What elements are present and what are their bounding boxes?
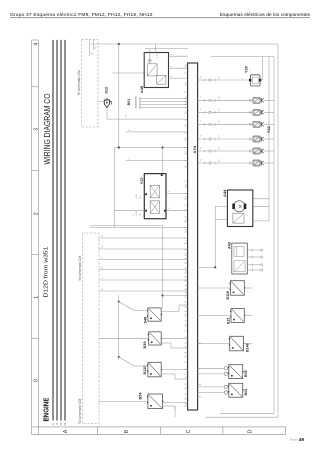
B05 connector circles — [224, 367, 227, 395]
svg-text:D12D from w351: D12D from w351 — [44, 246, 50, 297]
frame: zone numbers 4..0 — [33, 43, 39, 382]
svg-text:3: 3 — [33, 128, 39, 131]
wire S48 riser — [178, 305, 180, 312]
node J5 — [214, 266, 216, 268]
unit A44 (motor actuator) — [227, 190, 252, 227]
wire Y37 right pin 2 to A74 — [166, 210, 188, 212]
wire A45 right pin 2 to A74 — [169, 67, 189, 69]
svg-text:B01: B01 — [127, 99, 131, 106]
wire to S48 left pin — [134, 310, 148, 312]
wire B119 right pin2 — [161, 373, 175, 375]
wire CM stub 2 to A74 — [99, 248, 188, 250]
svg-text:A: A — [63, 429, 69, 433]
wire right vertical trunk 2 — [273, 57, 275, 414]
svg-text:2: 2 — [33, 212, 39, 215]
sensor B39 — [148, 332, 162, 345]
wire A74 to valve y100 — [198, 99, 253, 101]
wire B39 right pin to A74 — [161, 337, 187, 339]
sensor B118 — [230, 281, 246, 296]
svg-text:1: 1 — [33, 296, 39, 299]
frame: bottom ruler row — [32, 427, 286, 435]
svg-text:B05: B05 — [244, 370, 248, 377]
dashed box to-schematic CM (lower) — [83, 233, 100, 424]
node J3 trunk2 — [118, 146, 120, 148]
sensor B04 — [228, 383, 244, 397]
wire A45 top pin 1 — [149, 49, 151, 53]
wire CM to B54 left pin — [99, 401, 148, 403]
wire B119 riser2 — [174, 374, 176, 379]
wire A74 to B05 a — [198, 367, 225, 369]
A74 left pin labels — [185, 62, 187, 405]
wire valve Y33-4 to bus — [264, 138, 274, 140]
sensor B119 — [147, 362, 162, 377]
wire B54 riser to bottom return — [174, 406, 176, 417]
wire top trunk 1 — [90, 43, 278, 45]
valve Y33-2 — [253, 109, 264, 115]
svg-text:A45: A45 — [139, 85, 144, 93]
svg-text:B118: B118 — [226, 291, 230, 299]
wire A44 left pin 1 — [215, 205, 227, 207]
wire S48 right pin — [161, 311, 179, 313]
frame: left ruler column — [32, 40, 39, 434]
A74 right lower pin stubs — [198, 344, 201, 397]
connector comb symbol at bus end — [44, 416, 48, 420]
valve Y39 — [249, 75, 261, 86]
wire Y37 left pin to vertical B — [115, 210, 145, 212]
wire CM stub 1 to A74 — [99, 237, 188, 239]
wire A74 to B05 b — [198, 373, 225, 375]
svg-text:Pagina: Pagina — [290, 439, 298, 442]
svg-text:A43: A43 — [227, 242, 231, 249]
wire J4 down to S48 — [162, 296, 164, 308]
wire A44 right pin 3 — [253, 220, 269, 222]
wire vertical x118 lower — [118, 295, 120, 360]
svg-text:1 2 3: 1 2 3 — [157, 52, 159, 58]
wire A43 right pin 2 — [247, 256, 261, 258]
sensor B21 — [230, 309, 245, 323]
wire A74 to B148 — [198, 343, 230, 345]
wire valve Y33-3 to bus — [264, 123, 274, 125]
wire CM to B39 left pin — [99, 337, 149, 339]
connector X12 — [98, 98, 111, 108]
wire Y39 right stub — [260, 79, 263, 81]
wire B54 right pin to A74 — [163, 402, 188, 404]
wire J5 to A74 — [198, 266, 216, 268]
valve Y33-3 — [253, 121, 264, 127]
wire A74 to B21 — [198, 315, 231, 317]
wire A43 right pin 4 — [247, 269, 261, 271]
control unit A45 — [144, 52, 168, 87]
svg-text:S48: S48 — [143, 317, 147, 324]
wire A74 to valve y139 — [198, 138, 253, 140]
wire S48 riser to A74 — [179, 304, 188, 306]
node J1 on top trunk — [118, 43, 120, 45]
wire Y37 right pin 1 to A74 — [166, 193, 188, 195]
wire upper right horizontal — [211, 56, 274, 58]
wire A74 to valve y151 — [198, 150, 253, 152]
wire B54 riser2 — [174, 406, 176, 410]
wire to A74 — [171, 347, 188, 349]
frame: zone letters A..D — [63, 429, 254, 433]
sensor B05 — [228, 365, 244, 379]
wire X12 to A74 — [107, 118, 188, 120]
bus terminal labels — [52, 422, 67, 425]
wire CM stub 6 to A74 — [99, 290, 188, 292]
svg-text:A44: A44 — [222, 189, 227, 197]
wire valve Y33-5 to bus — [264, 150, 274, 152]
wire left vertical B — [114, 148, 116, 228]
node J6 — [118, 300, 120, 302]
valve Y33-1 — [253, 97, 264, 103]
wire to A74 — [175, 378, 188, 380]
wire A74 to valve y124 — [198, 123, 253, 125]
wire A43 right pin 1 — [247, 249, 261, 251]
svg-text:To schematic CM: To schematic CM — [78, 398, 82, 424]
wire B21 right stub — [244, 315, 252, 317]
wire B39 right pin2 — [161, 342, 171, 344]
sensor B148 — [229, 336, 245, 351]
A74 right pin labels, splice circles and ticks — [201, 75, 252, 164]
wire A74 to B118 — [198, 287, 231, 289]
wire A43 right pin 3 — [247, 264, 261, 266]
node J7 — [118, 356, 120, 358]
svg-text:WIRING DIAGRAM CO: WIRING DIAGRAM CO — [43, 94, 52, 165]
svg-text:0: 0 — [33, 379, 39, 382]
svg-text:ENGINE: ENGINE — [42, 397, 51, 421]
wire left vertical A — [118, 44, 120, 148]
svg-text:Esquemas eléctricos de los com: Esquemas eléctricos de los componentes — [220, 12, 311, 18]
wire X12 drop — [106, 108, 108, 120]
valve Y33-6 — [253, 160, 264, 166]
svg-text:B148: B148 — [246, 343, 250, 352]
wire A45 right pin 3 to A74 — [169, 77, 189, 79]
wire A74 to B04 a — [198, 386, 225, 388]
valve Y33-4 — [253, 136, 264, 142]
wire stub 2 inside dashed box — [93, 40, 95, 50]
wire down to Y37 pin 1 — [162, 148, 164, 174]
B01 wire number stacks — [135, 95, 189, 109]
svg-text:D: D — [248, 429, 254, 433]
sensor B54 — [147, 394, 163, 409]
svg-text:B119: B119 — [143, 366, 147, 375]
wire B54 right pin2 — [163, 405, 176, 407]
unit A43 — [232, 243, 248, 274]
wire valve Y33-2 to bus — [264, 111, 274, 113]
wire A45 top pin 2 — [155, 44, 157, 53]
wire CM stub 5 to A74 — [99, 279, 188, 281]
svg-text:B: B — [124, 429, 130, 433]
node J4 — [161, 294, 163, 296]
wire trunk 3b — [90, 227, 188, 229]
wire A44 right pin 2 — [253, 205, 269, 207]
wire trunk 2 to A74 — [115, 147, 188, 149]
wire trunk 3a — [90, 225, 163, 227]
wire A74 to B04 b — [198, 392, 225, 394]
svg-text:To schematic CM: To schematic CM — [77, 70, 81, 96]
svg-text:C: C — [186, 429, 192, 433]
wire to A45 left pin — [112, 72, 144, 74]
wire B148 right stub — [243, 343, 252, 345]
ECU connector bar A74 — [188, 63, 198, 410]
wire A45 right pin 1 to A74 — [169, 55, 189, 57]
wire vertical to J4 — [162, 226, 164, 296]
svg-text:L60A: L60A — [135, 211, 138, 216]
svg-text:B54: B54 — [139, 392, 143, 400]
svg-text:M: M — [237, 205, 242, 208]
svg-text:To schematic CM: To schematic CM — [78, 255, 82, 281]
svg-text:A74: A74 — [192, 145, 197, 153]
wire B119 right pin to A74 — [161, 369, 187, 371]
wire top trunk 2 — [145, 48, 188, 50]
wire mid to A74 y160 — [126, 160, 188, 162]
wire CM stub 4 to A74 — [99, 269, 188, 271]
wire number labels left of Y37 — [133, 194, 142, 216]
wire stub inside dashed box — [89, 40, 91, 56]
wire A74 to valve y163 — [198, 162, 253, 164]
A74 left pin stubs — [184, 66, 187, 406]
wire Y39 up to horizontal — [262, 57, 264, 81]
wire CM stub 3 to A74 — [99, 259, 188, 261]
wire bottom right return 1 — [220, 412, 274, 414]
wire valve Y33-6 to bus — [264, 162, 274, 164]
wire A44 right pin 1 — [253, 198, 269, 200]
valve Y33-5 — [253, 148, 264, 154]
wire A74 to Y39 — [198, 79, 251, 81]
svg-text:L60B: L60B — [136, 194, 138, 199]
svg-text:Grupo 37 Esquema eléctrico FM9: Grupo 37 Esquema eléctrico FM9, FM12, FH… — [10, 12, 153, 18]
svg-text:Y37: Y37 — [139, 176, 144, 184]
power bus feed lines — [53, 40, 65, 421]
wire B39 riser2 — [170, 343, 172, 348]
svg-text:B04: B04 — [244, 389, 248, 396]
svg-text:4: 4 — [33, 43, 39, 46]
wire A74 to valve y112 — [198, 111, 253, 113]
wire vertical at x215 — [214, 206, 216, 267]
wire right vertical trunk 1 — [277, 44, 279, 417]
wire J4 to A74 — [163, 295, 189, 297]
svg-text:Y33: Y33 — [267, 126, 271, 133]
sensor S48 — [147, 308, 162, 321]
wire A44 left pin 2 — [215, 219, 227, 221]
wire mid to A74 y132 — [126, 131, 188, 133]
svg-text:49: 49 — [299, 437, 305, 443]
node J2 trunk2 — [161, 146, 163, 148]
wire J6 diagonal to S48 — [119, 302, 134, 311]
wire valve Y33-1 to bus — [264, 99, 274, 101]
wire bottom right return 2 — [205, 416, 278, 418]
wire B118 right stub — [244, 287, 252, 289]
svg-text:Y39: Y39 — [245, 66, 249, 73]
svg-text:B21: B21 — [227, 317, 231, 324]
wire J7 diagonal to B119 — [119, 357, 134, 366]
wire to B119 left pin — [134, 365, 148, 367]
svg-text:B39: B39 — [143, 342, 147, 349]
dashed box to-schematic CM (top) — [82, 40, 99, 127]
svg-text:X12: X12 — [104, 87, 108, 94]
wire right vertical trunk 3 — [268, 57, 270, 222]
valve unit Y37 — [144, 174, 166, 219]
